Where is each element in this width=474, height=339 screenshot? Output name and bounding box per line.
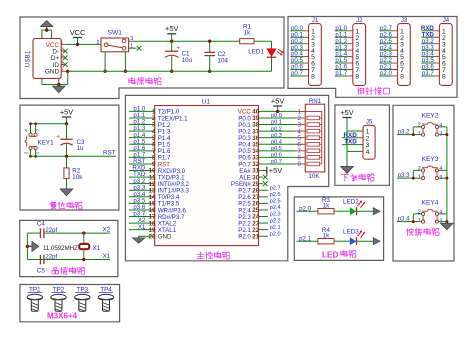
svg-text:VCC: VCC	[70, 28, 86, 37]
label MCU circuit (zhukong dianlu)	[197, 252, 204, 259]
SW1 common contact	[104, 43, 108, 47]
svg-text:KEY4: KEY4	[422, 200, 439, 207]
wire LED3 to arrow	[357, 240, 374, 242]
junction KEY3 left	[412, 177, 415, 180]
ground (arrow) key circuit	[446, 222, 448, 224]
region box: crystal area	[20, 220, 118, 276]
capacitor C5 plates	[40, 255, 44, 265]
wire p2.0 to R3	[296, 210, 318, 212]
region box: key area	[393, 105, 454, 261]
RN1 pin stubs	[296, 111, 306, 164]
svg-text:5: 5	[60, 67, 63, 72]
junction KEY3 right	[445, 177, 448, 180]
crystal X1 body	[79, 244, 89, 249]
svg-text:1: 1	[60, 40, 63, 45]
svg-text:LED1: LED1	[248, 48, 264, 55]
resistor R2 body	[64, 168, 69, 179]
junction crystal left	[26, 245, 29, 248]
svg-text:4: 4	[439, 166, 442, 172]
svg-text:J5: J5	[366, 120, 373, 126]
wire p3.2 to KEY2	[397, 134, 422, 136]
SW1 leg left to ground rail	[104, 52, 106, 72]
svg-text:2: 2	[418, 166, 421, 172]
power port +5V download	[343, 117, 352, 119]
capacitor C4 plates	[40, 228, 44, 238]
header J3 body	[398, 24, 411, 86]
junction SW1 leg right	[124, 70, 127, 73]
svg-text:RST: RST	[103, 150, 116, 157]
svg-text:C4: C4	[37, 220, 46, 227]
ground (right arrow) crystal	[27, 245, 32, 247]
wire C4 to crystal	[44, 232, 110, 234]
wire reset top rail	[31, 123, 67, 125]
wire P2.6 stub	[259, 196, 269, 198]
wire p3.4 to KEY4	[397, 221, 422, 223]
junction bottom shell	[57, 83, 60, 86]
svg-text:1k: 1k	[323, 202, 331, 209]
test point TP2 screw	[51, 294, 66, 300]
svg-text:p0.3: p0.3	[271, 133, 282, 139]
svg-text:p2.7: p2.7	[270, 185, 281, 191]
wire R3 to LED2	[334, 210, 350, 212]
svg-text:4: 4	[439, 123, 442, 129]
wire P2.4 stub	[259, 209, 269, 211]
wire ground rail	[68, 70, 272, 72]
wire P0.0 to RN1	[259, 117, 296, 119]
wire U1 pin 4	[129, 130, 155, 132]
header J2 body	[353, 24, 366, 86]
svg-text:X1: X1	[93, 245, 101, 252]
SW1 contact pin1	[122, 46, 126, 50]
wire crystal bottom	[27, 259, 110, 261]
wire +5V rail top	[129, 40, 240, 42]
USB1 pin stubs	[61, 44, 67, 71]
wire shell top join	[42, 29, 52, 31]
capacitor C3 stem top	[66, 124, 68, 140]
switch SW1 body	[101, 38, 129, 52]
wire U1 pin 3	[129, 124, 155, 126]
capacitor C2 plates	[204, 52, 215, 55]
junction C3 RST	[65, 155, 68, 158]
svg-text:p0.2: p0.2	[271, 126, 282, 132]
wires to J1	[291, 31, 304, 76]
junction KEY1 top-right	[34, 122, 37, 125]
wire GND to J5 pin4	[347, 150, 363, 152]
crystal X1 stem top	[83, 233, 85, 244]
region box: pin header area	[288, 17, 457, 98]
wire shell bottom join	[42, 84, 68, 86]
LED LED2	[350, 207, 357, 215]
wire P0.7 to RN1	[259, 163, 296, 165]
wire EA# stub	[259, 170, 267, 172]
svg-text:3: 3	[60, 53, 63, 58]
svg-text:p2.4: p2.4	[270, 205, 281, 211]
wire KEY2 left pins join	[413, 127, 421, 135]
wire PSEN# stub	[259, 183, 264, 185]
svg-text:+: +	[57, 134, 61, 140]
svg-text:+: +	[177, 46, 181, 52]
wire R4 to LED3	[334, 240, 350, 242]
svg-text:USB1: USB1	[25, 50, 32, 67]
J1 pin stubs	[304, 31, 309, 76]
svg-text:p1.7: p1.7	[335, 70, 347, 77]
svg-text:+5V: +5V	[269, 166, 282, 175]
wire U1 pin 5	[129, 137, 155, 139]
svg-text:22pf: 22pf	[45, 253, 57, 260]
USB GND-shield pin down	[58, 78, 60, 84]
wire P2.3 stub	[259, 216, 269, 218]
svg-text:p2.6: p2.6	[270, 192, 281, 198]
svg-text:2: 2	[418, 123, 421, 129]
SW1 leg right to ground rail	[124, 52, 126, 72]
svg-text:p0.7: p0.7	[291, 70, 303, 77]
J3 pin stubs	[393, 31, 398, 76]
ground (arrow) download	[346, 165, 348, 167]
wire P0.5 to RN1	[259, 150, 296, 152]
svg-text:+5V: +5V	[340, 108, 353, 117]
RN1 resistor element 5	[307, 142, 320, 146]
wire crystal top	[27, 232, 40, 234]
junction KEY2 right	[445, 133, 448, 136]
svg-text:p2.0: p2.0	[270, 231, 281, 237]
key KEY3 contacts	[422, 169, 425, 172]
svg-text:p3.7: p3.7	[422, 70, 434, 77]
test point TP4 screw	[98, 294, 113, 300]
wire U1 pin 20 GND	[139, 235, 155, 237]
wire P0.4 to RN1	[259, 143, 296, 145]
svg-text:KEY2: KEY2	[422, 113, 439, 120]
wire U1 pin 6	[129, 143, 155, 145]
svg-text:8: 8	[355, 74, 359, 81]
power port +5V (power rail)	[167, 33, 176, 35]
junction VCC	[76, 43, 79, 46]
svg-text:p3.3: p3.3	[398, 173, 410, 179]
svg-text:3: 3	[35, 129, 41, 132]
svg-text:U1: U1	[202, 99, 211, 106]
capacitor C1 plates	[165, 50, 178, 52]
capacitor C3 stem bottom	[66, 144, 68, 156]
junction crystal bottom	[82, 258, 85, 261]
wire U1 pin 13	[129, 189, 155, 191]
svg-text:GND: GND	[45, 69, 59, 76]
region box: test point area	[20, 285, 120, 322]
key KEY2 actuator	[422, 123, 437, 125]
svg-text:P2.0: P2.0	[238, 234, 251, 241]
LED LED1	[267, 49, 276, 57]
wire U1 pin 14	[129, 196, 155, 198]
wires to J4	[421, 31, 434, 76]
label pin-header interface (paizhen jiekou)	[357, 88, 364, 95]
USB shell stub up-right	[51, 30, 53, 38]
key KEY1 stub up-left	[30, 124, 32, 133]
svg-text:p2.3: p2.3	[270, 212, 281, 218]
svg-text:1u: 1u	[77, 145, 85, 152]
svg-text:20: 20	[148, 233, 156, 240]
USB shell stub up-left	[41, 30, 43, 38]
svg-text:p0.4: p0.4	[271, 139, 282, 145]
no-connect X on PSEN#	[263, 181, 268, 186]
crystal X1 stem bottom	[83, 251, 85, 260]
wire U1 pin 16	[129, 209, 155, 211]
output arrow LED2	[373, 208, 380, 215]
ground (arrow) below R2	[66, 187, 68, 189]
RN1 resistor element 3	[307, 129, 320, 133]
region box: LED area	[294, 197, 383, 261]
svg-text:J1: J1	[312, 18, 319, 24]
svg-text:10k: 10k	[72, 174, 83, 181]
region box: power supply area	[20, 17, 284, 99]
svg-text:2: 2	[24, 151, 30, 154]
wire U1 pin 19	[129, 229, 155, 231]
RN1 resistor element 8	[307, 162, 320, 166]
wire SW1 pin1 stub	[129, 47, 137, 49]
wire crystal left rail	[26, 233, 28, 259]
svg-text:1k: 1k	[244, 29, 252, 36]
KEY1 actuator	[25, 136, 27, 146]
svg-text:1k: 1k	[323, 232, 331, 239]
wire LED1 to ground rail	[271, 57, 273, 71]
LED3 emission arrows	[358, 231, 365, 238]
header J1 body	[309, 24, 322, 86]
svg-text:p0.5: p0.5	[271, 146, 282, 152]
wire P2.2 stub	[259, 222, 269, 224]
svg-text:2: 2	[60, 46, 63, 51]
junction KEY1 bottom-left	[29, 155, 32, 158]
capacitor C3 plates	[60, 138, 72, 140]
wires to J2	[335, 31, 348, 76]
LED LED3	[350, 237, 357, 245]
J2 pin stubs	[348, 31, 353, 76]
no-connect X on ID	[63, 62, 68, 67]
svg-text:4: 4	[439, 210, 442, 216]
output arrow LED3	[373, 238, 380, 245]
svg-text:8: 8	[442, 74, 446, 81]
wire GND riser	[67, 71, 69, 84]
test point TP1 screw	[27, 294, 42, 300]
LED2 emission arrows	[358, 201, 365, 208]
J4 pin stubs	[434, 31, 439, 76]
SW1 contact pin3	[122, 39, 126, 43]
wire U1 pin 7	[129, 150, 155, 152]
wire P0.2 to RN1	[259, 130, 296, 132]
svg-text:M3X6+4: M3X6+4	[47, 311, 78, 320]
svg-text:+5V: +5V	[165, 24, 178, 33]
svg-text:LED3: LED3	[343, 229, 359, 236]
power port +5V at EA#	[266, 167, 268, 175]
ground (arrow) at U1 pin 20	[138, 236, 140, 238]
wire VCC pin to switch	[66, 43, 103, 45]
svg-text:RN1: RN1	[309, 99, 322, 105]
wire P0.6 to RN1	[259, 156, 296, 158]
svg-text:4: 4	[366, 149, 370, 156]
svg-text:8: 8	[400, 74, 404, 81]
key KEY1 stub down-right	[35, 150, 37, 157]
power port VCC	[73, 37, 82, 39]
wire KEY2 right pins join	[439, 127, 447, 135]
resistor R2 stem bottom	[66, 179, 68, 188]
junction top shell	[45, 28, 48, 31]
capacitor C2 stem top	[209, 41, 211, 52]
svg-text:1: 1	[418, 218, 421, 224]
resistor network RN1 body	[305, 104, 324, 172]
wire P0.1 to RN1	[259, 124, 296, 126]
power port +5V at U1 VCC	[273, 105, 282, 107]
junction KEY4 left	[412, 220, 415, 223]
LED1 emission arrows	[277, 49, 284, 55]
wire RST rail	[31, 155, 117, 157]
svg-text:p2.1: p2.1	[270, 225, 281, 231]
svg-text:p0.6: p0.6	[271, 153, 282, 159]
svg-text:X1: X1	[138, 224, 146, 231]
svg-text:p2.5: p2.5	[270, 199, 281, 205]
wire U1 pin 9	[129, 163, 155, 165]
svg-text:X2: X2	[103, 226, 111, 233]
wire +5V to J5 pin1	[347, 130, 363, 132]
no-connect X on D-	[63, 49, 68, 54]
junction KEY2 left	[412, 133, 415, 136]
RN1 resistor element 6	[307, 149, 320, 153]
junction reset +5V	[65, 122, 68, 125]
resistor R4 body	[318, 239, 334, 244]
svg-text:J4: J4	[443, 18, 450, 24]
label power circuit (dianyuan dianlu)	[129, 78, 135, 84]
svg-text:p3.4: p3.4	[398, 216, 410, 222]
region box: download area	[335, 105, 390, 185]
capacitor C2 stem bottom	[209, 56, 211, 72]
SW1 lever	[108, 45, 123, 48]
wire TXD to J5 pin3	[342, 144, 363, 146]
junction GND rail	[66, 70, 69, 73]
label download circuit (xiazai dianlu)	[341, 174, 348, 180]
wire U1 pin 1	[129, 110, 155, 112]
svg-text:LED: LED	[322, 250, 338, 259]
svg-text:2: 2	[418, 210, 421, 216]
svg-text:p0.7: p0.7	[271, 159, 282, 165]
resistor R2 stem top	[66, 156, 68, 168]
ground (up arrow) above USB	[46, 27, 48, 30]
no-connect X on ALE	[263, 175, 268, 180]
no-connect X on D+	[63, 56, 68, 61]
wire U1 pin40 to RN1 pin1	[259, 110, 296, 112]
wire U1 pin 15	[129, 202, 155, 204]
svg-text:p2.0: p2.0	[380, 70, 392, 77]
svg-text:+5V: +5V	[271, 96, 284, 105]
wire U1 pin 17	[129, 216, 155, 218]
key KEY4 actuator	[422, 210, 437, 212]
capacitor C1 stem bottom	[171, 56, 173, 71]
test point TP3 screw	[75, 294, 90, 300]
svg-text:p0.1: p0.1	[271, 120, 282, 126]
svg-text:10u: 10u	[182, 57, 193, 64]
wire LED2 to arrow	[357, 210, 374, 212]
svg-text:2: 2	[97, 40, 100, 46]
header J4 body	[439, 24, 452, 86]
wire p2.1 to R4	[296, 240, 318, 242]
wire KEY4 left pins join	[413, 214, 421, 222]
svg-text:X1: X1	[103, 253, 111, 260]
svg-text:p3.2: p3.2	[398, 129, 410, 135]
power port +5V reset	[62, 116, 71, 118]
ground (down arrow) below USB	[58, 85, 60, 87]
svg-text:1: 1	[418, 131, 421, 137]
junction C2 top	[208, 40, 211, 43]
junction KEY4 right	[445, 220, 448, 223]
wire key ground rail	[446, 127, 448, 222]
svg-text:21: 21	[252, 233, 259, 240]
junction C2 bottom	[208, 70, 211, 73]
svg-text:p0.0: p0.0	[271, 113, 282, 119]
svg-text:LED2: LED2	[343, 199, 359, 206]
RN1 resistor element 2	[307, 123, 320, 127]
wire U1 pin 11	[129, 176, 155, 178]
RN1 common bus	[305, 111, 322, 164]
wire P2.0 stub	[259, 235, 269, 237]
svg-text:8: 8	[311, 74, 315, 81]
svg-text:+5V: +5V	[60, 107, 73, 116]
wire ALE stub	[259, 176, 264, 178]
wire P2.5 stub	[259, 202, 269, 204]
wires to J3	[380, 31, 393, 76]
svg-text:TXD: TXD	[344, 139, 357, 146]
wire KEY4 right pins join	[439, 214, 447, 222]
junction C1 bottom	[170, 70, 173, 73]
wire RXD to J5 pin2	[342, 137, 363, 139]
key KEY1 stub down-left	[30, 150, 32, 157]
junction KEY1 bottom-right	[34, 155, 37, 158]
no-connect X on SW1 pin1	[137, 46, 142, 51]
svg-text:SW1: SW1	[108, 29, 123, 36]
key KEY2 contacts	[422, 125, 425, 128]
junction +5V VCC	[276, 110, 279, 113]
label key circuit (anjian dianlu)	[406, 228, 413, 235]
wire U1 pin 2	[129, 117, 155, 119]
junction KEY1 top-left	[29, 122, 32, 125]
resistor R1 body	[240, 39, 254, 44]
wire R1 to LED1	[254, 41, 272, 49]
svg-text:4: 4	[60, 60, 63, 65]
wire P2.1 stub	[259, 229, 269, 231]
wire P0.3 to RN1	[259, 137, 296, 139]
svg-text:10K: 10K	[308, 173, 320, 180]
svg-text:p2.0: p2.0	[299, 205, 311, 212]
junction +5V at C1	[170, 40, 173, 43]
wire P2.7 stub	[259, 189, 269, 191]
key KEY4 contacts	[422, 212, 425, 215]
svg-text:9: 9	[297, 161, 301, 168]
junction crystal top	[82, 231, 85, 234]
USB shell stub down-left	[41, 78, 43, 84]
svg-text:104: 104	[218, 57, 229, 64]
svg-text:11.0592MHZ: 11.0592MHZ	[43, 245, 78, 252]
svg-text:J2: J2	[356, 18, 363, 24]
wire U1 pin 12	[129, 183, 155, 185]
key KEY3 actuator	[422, 166, 437, 168]
key KEY1 stub up-right	[35, 124, 37, 133]
svg-text:J3: J3	[401, 18, 408, 24]
wire U1 pin 18	[129, 222, 155, 224]
header J5 body	[363, 125, 375, 159]
svg-text:KEY1: KEY1	[38, 140, 55, 147]
wire p3.3 to KEY3	[397, 177, 422, 179]
key KEY1 contacts	[29, 133, 32, 136]
label crystal circuit (jingzhen dianlu)	[52, 267, 58, 273]
svg-text:KEY3: KEY3	[422, 156, 439, 163]
resistor R3 body	[318, 209, 334, 214]
junction SW1 leg left	[103, 70, 106, 73]
RN1 resistor element 7	[307, 156, 320, 160]
USB connector USB1 body	[33, 39, 61, 79]
svg-text:p2.1: p2.1	[299, 235, 311, 242]
